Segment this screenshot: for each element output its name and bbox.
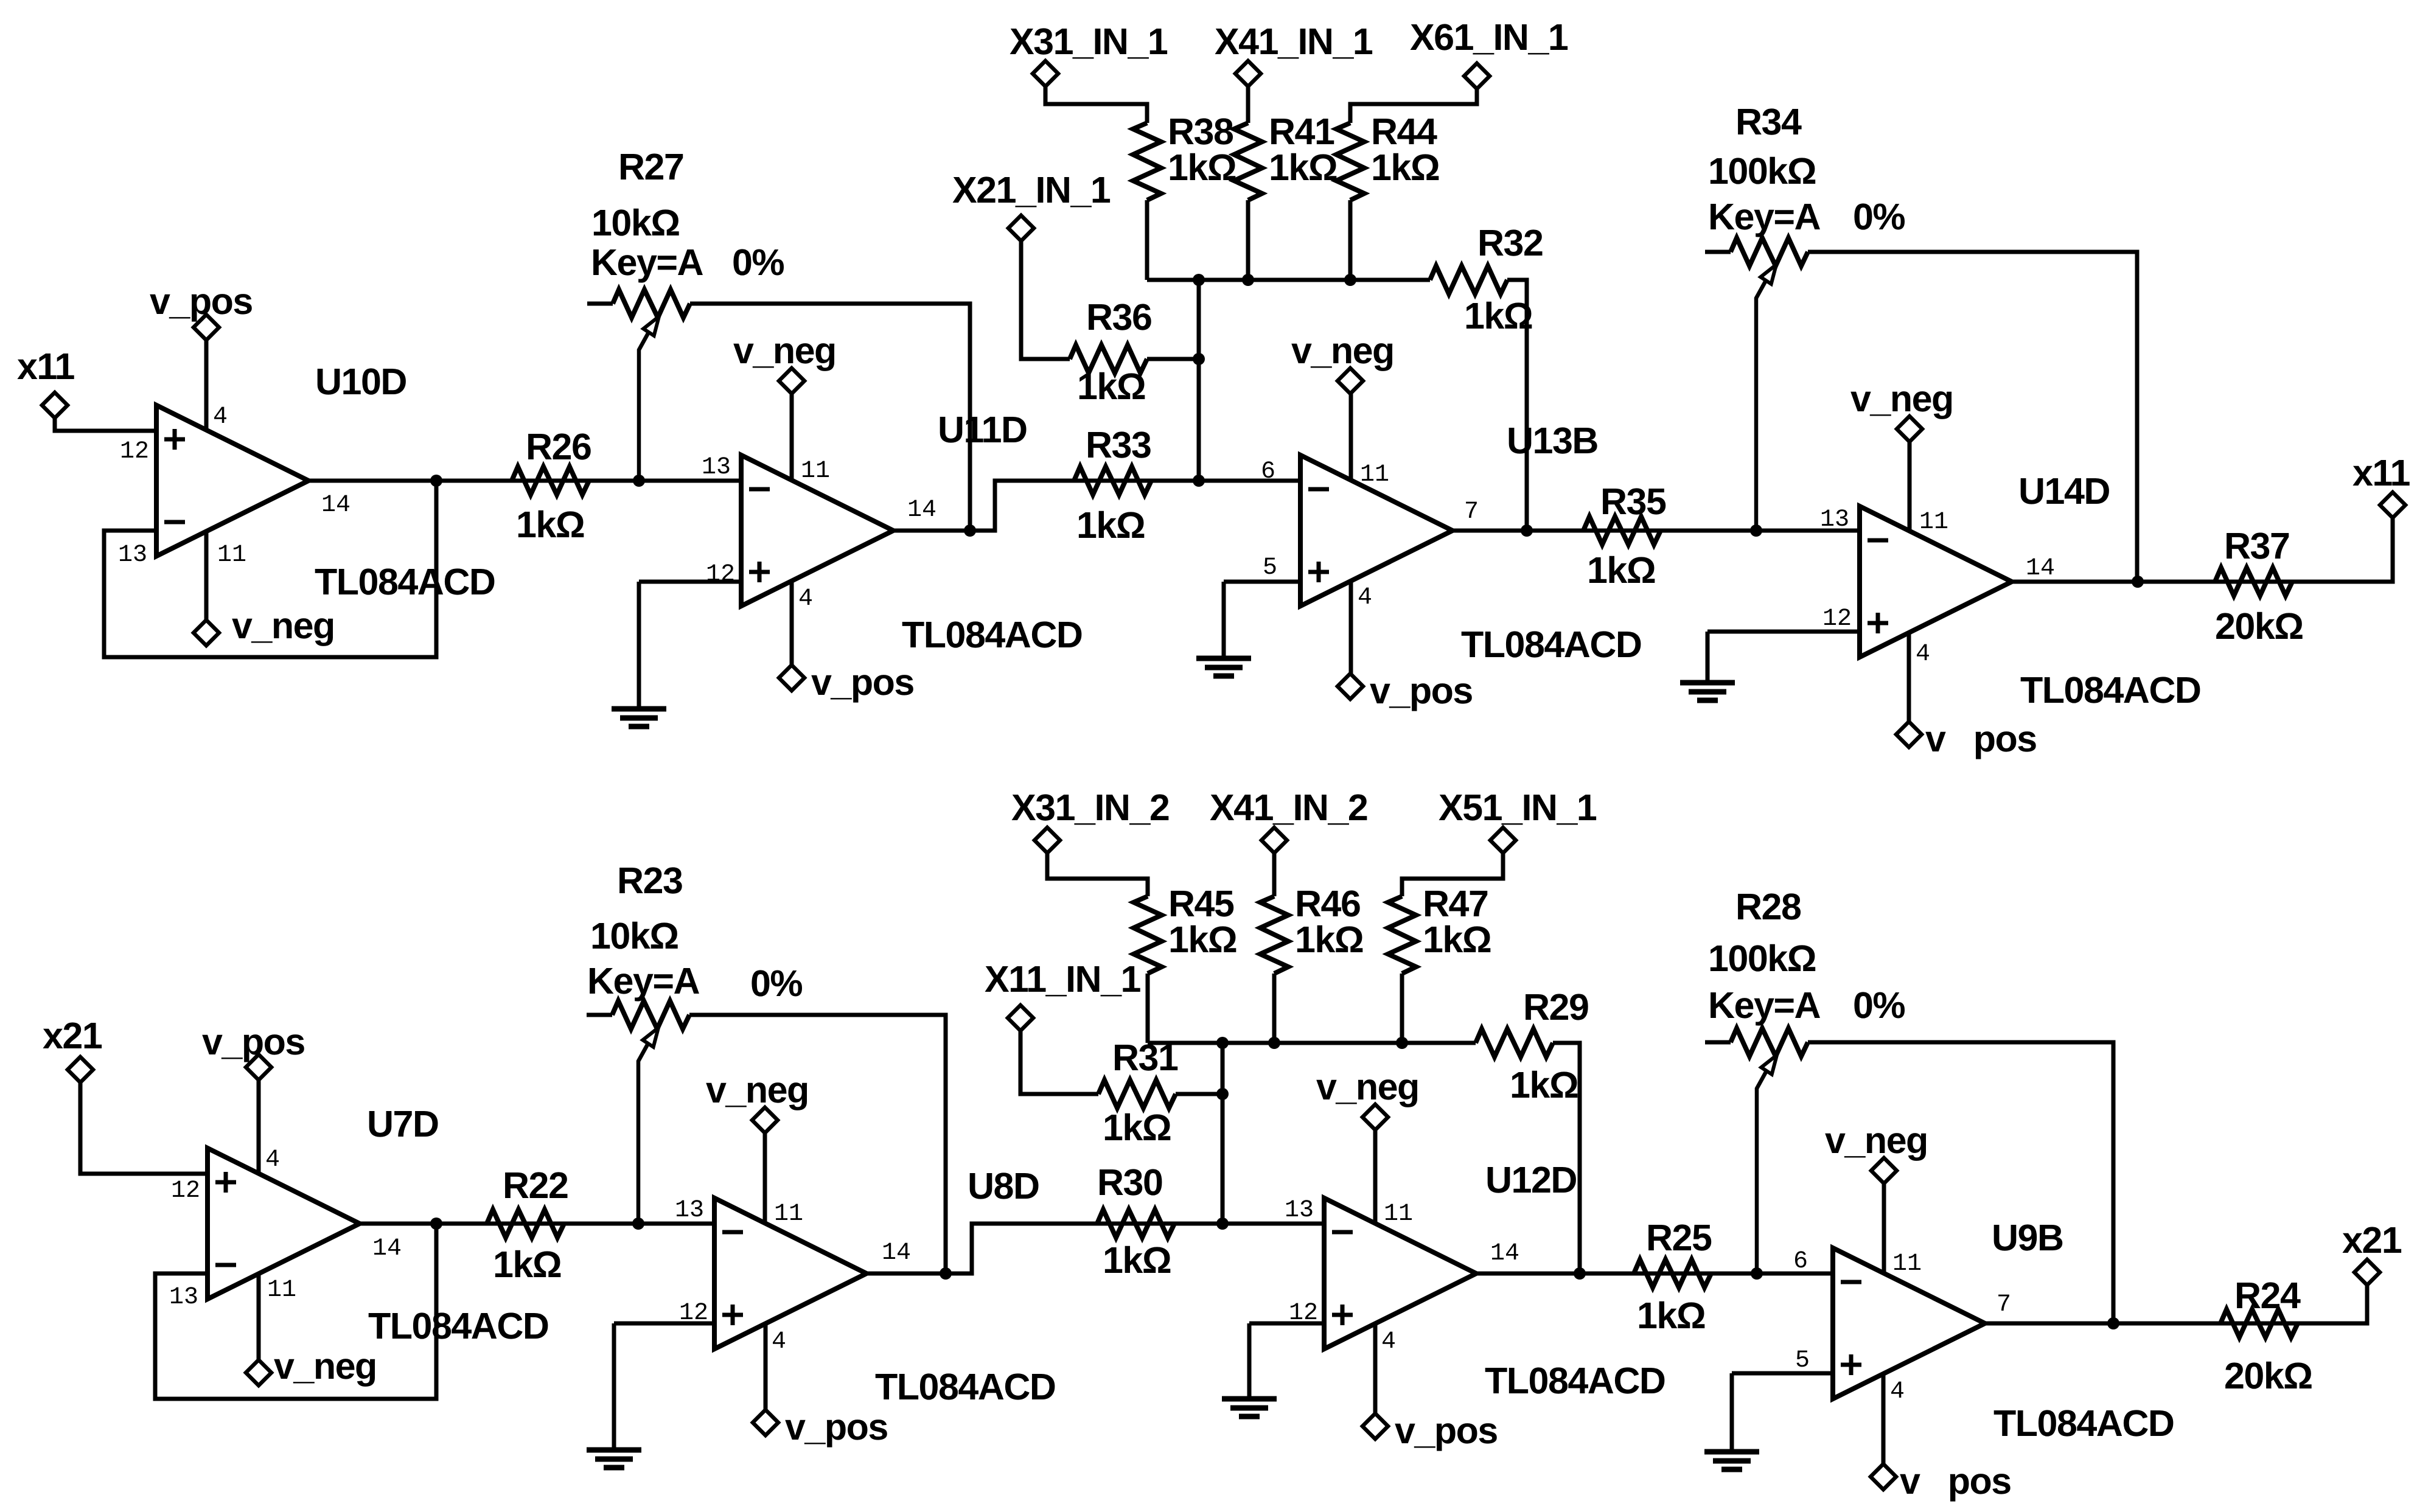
junction U11D output node: [964, 524, 976, 537]
svg-text:v_neg: v_neg: [1316, 1066, 1419, 1107]
svg-text:14: 14: [882, 1239, 911, 1267]
svg-text:R46: R46: [1295, 883, 1360, 924]
node X11_IN_1 terminal diamond: [1008, 1005, 1033, 1031]
svg-text:v_pos: v_pos: [202, 1021, 305, 1062]
svg-text:TL084ACD: TL084ACD: [1993, 1402, 2174, 1444]
node v_neg terminal diamond U9B: [1871, 1158, 1897, 1183]
junction U7D output feedback node: [430, 1218, 442, 1230]
svg-text:11: 11: [1892, 1250, 1922, 1278]
svg-text:TL084ACD: TL084ACD: [315, 561, 495, 602]
svg-text:R38: R38: [1168, 111, 1233, 152]
svg-text:TL084ACD: TL084ACD: [1485, 1360, 1665, 1401]
svg-text:4: 4: [798, 585, 813, 613]
resistor R30 zigzag: [1097, 1210, 1174, 1238]
svg-text:11: 11: [1919, 509, 1948, 536]
svg-text:4: 4: [265, 1146, 280, 1174]
wire pin 11 v_neg to U12D: [1373, 1130, 1378, 1223]
node X51_IN_1 terminal diamond: [1490, 827, 1516, 853]
svg-text:TL084ACD: TL084ACD: [2020, 669, 2200, 711]
node x11 output terminal diamond: [2380, 492, 2405, 518]
ground below U9B: [1704, 1452, 1759, 1469]
svg-text:v_neg: v_neg: [1291, 330, 1394, 371]
svg-text:13: 13: [118, 542, 147, 569]
svg-text:0%: 0%: [1853, 984, 1905, 1026]
svg-text:TL084ACD: TL084ACD: [368, 1305, 548, 1347]
wire summing node to U13B inverting input: [1199, 479, 1300, 483]
op-amp U8D triangle: [714, 1198, 867, 1349]
svg-text:R31: R31: [1112, 1037, 1178, 1078]
svg-text:U12D: U12D: [1485, 1159, 1577, 1200]
svg-text:R23: R23: [617, 860, 682, 901]
svg-text:1kΩ: 1kΩ: [1295, 919, 1363, 960]
potentiometer R34 wiper arrow: [1756, 280, 1766, 531]
svg-text:U14D: U14D: [2018, 470, 2110, 512]
node X31_IN_2 terminal diamond: [1034, 827, 1060, 853]
op-amp U7D triangle: [208, 1148, 360, 1299]
junction U13B output feedback node: [1521, 524, 1533, 537]
wire X31_IN_2 to R45: [1047, 840, 1148, 896]
svg-text:13: 13: [169, 1284, 198, 1311]
node v_neg terminal diamond U14D: [1897, 416, 1922, 442]
resistor R45 vertical zigzag: [1134, 896, 1162, 974]
svg-text:12: 12: [1822, 605, 1852, 633]
svg-text:14: 14: [907, 496, 936, 524]
ground below U13B: [1196, 658, 1251, 676]
junction U9B output feedback node: [2107, 1317, 2119, 1329]
resistor R46 vertical zigzag: [1260, 896, 1288, 974]
svg-text:TL084ACD: TL084ACD: [902, 614, 1082, 655]
svg-text:0%: 0%: [1853, 196, 1905, 237]
svg-text:0%: 0%: [750, 963, 802, 1004]
svg-text:R30: R30: [1097, 1162, 1162, 1203]
svg-text:4: 4: [1381, 1328, 1396, 1356]
node v_pos terminal diamond U8D: [753, 1410, 778, 1435]
svg-text:v_neg: v_neg: [1850, 378, 1953, 419]
wire summing bus row 2: [1148, 1041, 1476, 1045]
junction U14D output feedback node: [2132, 576, 2144, 588]
wire U11D noninverting input to ground: [639, 580, 741, 584]
svg-text:11: 11: [267, 1277, 296, 1304]
svg-text:4: 4: [772, 1328, 786, 1356]
wire pin 11 v_neg to U9B: [1882, 1183, 1886, 1274]
wire R22 junction to U8D inverting input: [638, 1222, 714, 1226]
svg-text:v_neg: v_neg: [1825, 1120, 1928, 1161]
wire summing bus row 1: [1147, 278, 1430, 282]
svg-text:100kΩ: 100kΩ: [1708, 938, 1816, 979]
svg-text:R33: R33: [1086, 424, 1151, 465]
svg-text:1kΩ: 1kΩ: [1371, 147, 1439, 188]
svg-text:R29: R29: [1523, 986, 1588, 1028]
node X41_IN_1 terminal diamond: [1235, 61, 1261, 86]
svg-text:14: 14: [321, 492, 351, 519]
wire U7D feedback output to inverting input: [155, 1224, 436, 1399]
ground below U8D: [587, 1450, 641, 1468]
svg-text:U9B: U9B: [1992, 1217, 2063, 1258]
junction R36 node: [1193, 353, 1205, 365]
op-amp U9B triangle: [1833, 1248, 1985, 1399]
svg-text:v_pos: v_pos: [1395, 1410, 1498, 1451]
svg-text:R28: R28: [1735, 886, 1801, 927]
svg-text:1kΩ: 1kΩ: [1076, 504, 1145, 546]
wire X11_IN_1 to R31: [1020, 1018, 1098, 1094]
svg-text:R24: R24: [2234, 1275, 2301, 1316]
node v_pos terminal diamond U10D: [194, 315, 219, 340]
wire pin 4 v_pos to U7D: [257, 1067, 261, 1174]
wire pin 4 U13B to v_pos: [1349, 582, 1353, 686]
svg-text:R25: R25: [1646, 1217, 1712, 1258]
junction bus node at R46: [1268, 1037, 1280, 1049]
node v_pos terminal diamond U14D: [1896, 722, 1922, 747]
svg-text:v_neg: v_neg: [274, 1345, 377, 1387]
svg-text:R37: R37: [2224, 525, 2289, 566]
svg-text:14: 14: [372, 1235, 402, 1263]
svg-text:R22: R22: [503, 1165, 568, 1206]
wire U10D output to R26 to junction: [309, 479, 639, 483]
svg-text:13: 13: [1285, 1197, 1314, 1224]
svg-text:x11: x11: [2353, 452, 2410, 493]
svg-text:1kΩ: 1kΩ: [1269, 147, 1337, 188]
svg-text:v_pos: v_pos: [150, 280, 253, 322]
svg-text:11: 11: [217, 542, 246, 569]
resistor R24 zigzag: [2220, 1309, 2298, 1337]
svg-text:Key=A: Key=A: [1708, 196, 1821, 237]
svg-text:R32: R32: [1477, 222, 1543, 263]
svg-text:12: 12: [1289, 1300, 1318, 1327]
wire U14D output to R37 to x11 output: [2012, 518, 2393, 582]
svg-text:5: 5: [1263, 554, 1277, 582]
svg-text:x21: x21: [43, 1015, 102, 1056]
svg-text:U8D: U8D: [968, 1165, 1039, 1207]
wire U7D output to R22 to junction: [360, 1222, 638, 1226]
wire R26 junction to U11D inverting input: [639, 479, 741, 483]
junction bus node at R44: [1344, 274, 1356, 286]
resistor R36 zigzag: [1070, 345, 1147, 373]
svg-text:11: 11: [1384, 1200, 1413, 1228]
svg-text:v_pos: v_pos: [1370, 670, 1473, 711]
svg-text:v_pos: v_pos: [811, 661, 914, 703]
resistor R22 zigzag: [487, 1210, 564, 1238]
svg-text:v_pos: v_pos: [785, 1406, 888, 1448]
svg-text:4: 4: [213, 403, 228, 431]
svg-text:6: 6: [1793, 1248, 1808, 1275]
svg-text:v_neg: v_neg: [232, 605, 335, 646]
wire X21_IN_1 to R36: [1021, 228, 1070, 359]
svg-text:13: 13: [1820, 506, 1849, 534]
potentiometer R27 wiper arrow: [639, 332, 649, 481]
wire pin 11 v_neg to U11D: [790, 394, 794, 481]
svg-text:1kΩ: 1kΩ: [1103, 1239, 1171, 1281]
op-amp U14D triangle: [1860, 506, 2012, 657]
node x21 input terminal diamond: [68, 1057, 93, 1082]
svg-text:13: 13: [675, 1197, 704, 1224]
svg-text:5: 5: [1795, 1347, 1810, 1374]
resistor R26 zigzag: [512, 467, 589, 495]
junction bus node at R41: [1242, 274, 1254, 286]
wire U8D noninverting input to ground: [614, 1322, 714, 1326]
wire U14D noninverting input to ground: [1707, 630, 1860, 634]
wire X41_IN_1 to R41: [1246, 74, 1250, 123]
svg-text:1kΩ: 1kΩ: [493, 1244, 561, 1285]
resistor R35 zigzag: [1583, 517, 1661, 545]
wire pin 4 U8D to v_pos: [764, 1325, 768, 1423]
svg-text:Key=A: Key=A: [591, 242, 703, 283]
potentiometer R34 body and leads: [1705, 250, 1731, 254]
svg-text:1kΩ: 1kΩ: [1587, 549, 1655, 591]
wire summing node to U12D inverting input: [1222, 1222, 1324, 1226]
svg-text:x21: x21: [2342, 1219, 2402, 1261]
svg-text:X21_IN_1: X21_IN_1: [952, 169, 1111, 211]
op-amp U12D triangle: [1324, 1198, 1476, 1349]
resistor R31 zigzag: [1098, 1080, 1176, 1108]
junction bus node at column row 2: [1216, 1037, 1229, 1049]
wire X41_IN_2 to R46: [1272, 840, 1277, 896]
wire bus column down to inverting input row 1: [1197, 280, 1201, 481]
svg-text:4: 4: [1890, 1378, 1905, 1406]
resistor R41 vertical zigzag: [1234, 123, 1262, 200]
svg-text:X61_IN_1: X61_IN_1: [1410, 16, 1568, 58]
resistor R47 vertical zigzag: [1388, 896, 1416, 974]
wire X61_IN_1 to R44: [1350, 76, 1477, 123]
node v_neg terminal diamond U13B: [1338, 368, 1363, 394]
ground below U12D: [1222, 1399, 1277, 1416]
svg-text:R36: R36: [1086, 296, 1151, 338]
junction R33 summing node: [1193, 475, 1205, 487]
svg-text:20kΩ: 20kΩ: [2224, 1355, 2312, 1396]
resistor R44 vertical zigzag: [1336, 123, 1364, 200]
svg-text:v pos: v pos: [1900, 1460, 2011, 1502]
svg-text:1kΩ: 1kΩ: [1637, 1295, 1705, 1336]
svg-text:U10D: U10D: [315, 361, 406, 402]
wire pin 11 U7D to v_neg: [257, 1274, 261, 1373]
junction bus node at R47: [1396, 1037, 1408, 1049]
resistor R29 zigzag on feedback bus: [1476, 1029, 1553, 1057]
node X21_IN_1 terminal diamond: [1008, 215, 1034, 241]
svg-text:12: 12: [679, 1300, 708, 1327]
svg-text:x11: x11: [17, 346, 74, 387]
wire U12D output to R25 to U9B: [1476, 1272, 1833, 1276]
svg-text:X41_IN_2: X41_IN_2: [1210, 787, 1367, 828]
svg-text:1kΩ: 1kΩ: [1510, 1064, 1578, 1106]
junction R22 right node: [632, 1218, 644, 1230]
resistor R25 zigzag: [1634, 1259, 1711, 1287]
resistor R32 zigzag on feedback bus: [1430, 266, 1507, 294]
ground below U14D: [1680, 683, 1735, 700]
potentiometer R28 body and leads: [1705, 1040, 1731, 1045]
svg-text:14: 14: [2026, 555, 2055, 582]
svg-text:R35: R35: [1600, 481, 1666, 522]
svg-text:v pos: v pos: [1925, 718, 2037, 759]
svg-text:12: 12: [171, 1177, 200, 1205]
node v_neg terminal diamond U11D: [779, 368, 804, 394]
svg-text:4: 4: [1358, 584, 1372, 611]
junction bus node at column row 1: [1193, 274, 1205, 286]
svg-text:Key=A: Key=A: [1708, 984, 1821, 1026]
potentiometer R27 body and leads: [587, 302, 613, 306]
svg-text:11: 11: [774, 1200, 803, 1228]
svg-text:v_neg: v_neg: [706, 1069, 809, 1110]
wire bus column down to inverting input row 2: [1221, 1043, 1225, 1224]
svg-text:100kΩ: 100kΩ: [1708, 150, 1816, 192]
junction U8D output node: [940, 1267, 952, 1280]
svg-text:Key=A: Key=A: [587, 960, 700, 1002]
node X41_IN_2 terminal diamond: [1261, 827, 1287, 853]
svg-text:20kΩ: 20kΩ: [2215, 605, 2303, 647]
node v_neg terminal diamond U12D: [1362, 1104, 1388, 1130]
wire pin 4 U11D to v_pos: [790, 582, 794, 678]
op-amp U11D triangle: [741, 455, 893, 606]
svg-text:12: 12: [706, 561, 735, 588]
potentiometer R23 body and leads: [587, 1013, 612, 1017]
svg-text:TL084ACD: TL084ACD: [1461, 624, 1641, 665]
svg-text:R44: R44: [1371, 111, 1437, 152]
wire pin 11 U10D to v_neg: [204, 531, 209, 633]
svg-text:X51_IN_1: X51_IN_1: [1439, 787, 1597, 828]
svg-text:0%: 0%: [732, 242, 784, 283]
wire pin 4 U12D to v_pos: [1373, 1325, 1378, 1426]
op-amp U10D triangle: [156, 405, 309, 556]
svg-text:X31_IN_1: X31_IN_1: [1010, 21, 1168, 62]
junction U12D output feedback node: [1574, 1267, 1586, 1280]
svg-text:11: 11: [801, 458, 830, 485]
svg-text:1kΩ: 1kΩ: [1103, 1107, 1171, 1148]
svg-text:U11D: U11D: [938, 409, 1027, 450]
wire U13B output to R35 to U14D: [1453, 529, 1860, 533]
node v_pos terminal diamond U11D: [779, 665, 804, 691]
node X61_IN_1 terminal diamond: [1464, 63, 1490, 89]
node v_neg terminal diamond U8D: [752, 1107, 778, 1133]
svg-text:7: 7: [1464, 498, 1479, 526]
svg-text:1kΩ: 1kΩ: [1168, 147, 1236, 188]
svg-text:v_neg: v_neg: [733, 330, 836, 371]
wire pin 11 v_neg to U8D: [763, 1133, 767, 1223]
svg-text:6: 6: [1261, 458, 1275, 486]
svg-text:1kΩ: 1kΩ: [1168, 919, 1236, 960]
svg-text:U7D: U7D: [367, 1103, 439, 1144]
svg-text:13: 13: [702, 454, 731, 481]
svg-text:1kΩ: 1kΩ: [516, 504, 584, 545]
wire pin 11 v_neg to U14D: [1908, 442, 1912, 531]
svg-text:R26: R26: [526, 426, 591, 467]
svg-text:10kΩ: 10kΩ: [591, 202, 680, 243]
wire pin 4 v_pos to U10D: [204, 327, 209, 431]
node v_neg terminal diamond U7D: [246, 1360, 271, 1385]
svg-text:R45: R45: [1168, 883, 1234, 924]
op-amp U13B triangle: [1300, 455, 1453, 606]
node v_pos terminal diamond U9B: [1871, 1464, 1896, 1489]
svg-text:R34: R34: [1735, 101, 1802, 142]
wire pin 4 U14D to v_pos: [1907, 633, 1911, 734]
node v_pos terminal diamond U13B: [1338, 674, 1363, 699]
wire x11 input to U10D + input: [55, 405, 156, 431]
wire U10D feedback output to inverting input: [104, 481, 436, 657]
junction U10D output feedback node: [430, 475, 442, 487]
resistor R33 zigzag: [1074, 467, 1151, 495]
svg-text:1kΩ: 1kΩ: [1077, 366, 1145, 407]
svg-text:14: 14: [1490, 1240, 1519, 1267]
svg-text:R47: R47: [1423, 883, 1488, 924]
junction R26 right node: [633, 475, 645, 487]
wire X51_IN_1 to R47: [1402, 840, 1503, 896]
junction R35 wiper node: [1750, 524, 1762, 537]
svg-text:R27: R27: [618, 146, 683, 187]
resistor R37 zigzag: [2215, 568, 2292, 596]
node x11 input terminal diamond: [42, 392, 68, 418]
svg-text:X11_IN_1: X11_IN_1: [985, 958, 1141, 1000]
svg-text:1kΩ: 1kΩ: [1464, 295, 1532, 336]
node x21 output terminal diamond: [2354, 1259, 2380, 1285]
svg-text:4: 4: [1916, 641, 1930, 668]
ground below U11D: [612, 709, 666, 726]
svg-text:12: 12: [120, 438, 149, 465]
node X31_IN_1 terminal diamond: [1033, 61, 1058, 86]
wire X31_IN_1 to R38: [1045, 74, 1147, 123]
wire U8D output to junction to R30 jog: [867, 1224, 1222, 1273]
resistor R38 vertical zigzag: [1133, 123, 1161, 200]
potentiometer R23 wiper arrow: [638, 1043, 648, 1224]
wire U9B noninverting input to ground: [1732, 1371, 1833, 1376]
svg-text:11: 11: [1360, 461, 1389, 489]
node v_pos terminal diamond U12D: [1362, 1413, 1388, 1439]
wire U12D noninverting input to ground: [1249, 1322, 1324, 1326]
svg-text:7: 7: [1997, 1291, 2011, 1319]
wire x21 input to U7D + input: [80, 1070, 208, 1174]
svg-text:10kΩ: 10kΩ: [590, 915, 678, 956]
svg-text:X31_IN_2: X31_IN_2: [1011, 787, 1169, 828]
wire U13B noninverting input to ground: [1224, 580, 1300, 584]
svg-text:R41: R41: [1269, 111, 1334, 152]
svg-text:1kΩ: 1kΩ: [1423, 919, 1491, 960]
wire pin 11 v_neg to U13B: [1349, 394, 1353, 481]
junction R25 wiper node: [1751, 1267, 1763, 1280]
wire U11D output to junction to R33 jog: [893, 481, 1199, 531]
svg-text:U13B: U13B: [1507, 420, 1598, 461]
svg-text:X41_IN_1: X41_IN_1: [1215, 21, 1373, 62]
potentiometer R28 wiper arrow: [1757, 1071, 1767, 1273]
node v_neg terminal diamond U10D: [194, 620, 219, 646]
junction R31 node: [1216, 1088, 1229, 1100]
wire U9B output to R24 to x21 output: [1985, 1285, 2367, 1323]
node v_pos terminal diamond U7D: [246, 1054, 271, 1080]
svg-text:TL084ACD: TL084ACD: [875, 1366, 1055, 1407]
wire pin 4 U9B to v_pos: [1882, 1375, 1886, 1464]
junction R30 summing node: [1216, 1218, 1229, 1230]
